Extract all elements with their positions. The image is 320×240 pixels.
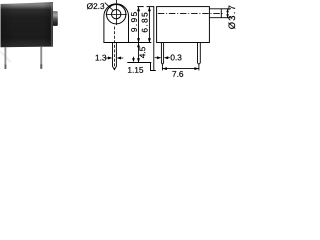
0.3 arrow tails [155,57,158,59]
1.3 arrow tails [105,57,109,59]
label dia 3.7 [228,6,235,29]
front view mid circle [107,5,126,24]
long extension vertical [153,7,155,71]
barrel dia ticks [222,8,231,10]
photo: connector body [1,2,54,47]
label 0.3 [171,55,182,61]
side pin left [161,43,163,65]
photo: pin left [5,47,7,69]
arrowheads dim 4.5 [137,43,140,47]
front view inner circle [112,10,121,19]
photo: pin right [40,47,42,69]
front view body outline [104,4,129,43]
label 1.15 [128,67,143,73]
arrowhead 1.15 [132,58,135,62]
dim line 6.85 [148,7,150,43]
dim line 7.6 [162,68,199,70]
dim line 9.95 [138,7,140,43]
dim line 3.7 [227,9,229,18]
dim line 4.5 [138,43,140,62]
side view barrel [209,9,221,18]
label 1.3 [96,55,107,61]
crosshair horizontal [106,13,127,15]
arrowheads dim 6.85 [148,7,151,11]
pin extension lines [161,65,163,70]
label dia 2.3 [87,3,104,9]
photo: barrel stub right side [53,11,58,26]
photo: right edge highlight [51,3,53,46]
arrowheads 1.3 [108,57,112,60]
arrowheads 0.3 [157,56,161,59]
label 4.5 [140,47,146,58]
label 7.6 [172,71,183,77]
photo: shadow under body [1,52,10,62]
side view centerline [158,12,225,14]
top extension ticks [137,6,144,8]
side view body [157,7,210,43]
1.15 arrow shaft [133,57,135,60]
extension line y62.4 [127,62,151,64]
label 6.85 [142,13,148,33]
bottom body extension line [129,42,152,44]
arrowheads dim 9.95 [137,7,140,11]
arrowheads 7.6 [163,67,167,70]
label 9.95 [131,12,137,32]
front pin [113,43,117,70]
crosshair vertical [115,0,117,25]
leader line for dia 2.3 [105,3,114,11]
side pin right [198,43,201,65]
L bracket [151,63,156,71]
dashed centerline front [114,27,116,70]
arrowheads 3.7 [226,9,229,12]
